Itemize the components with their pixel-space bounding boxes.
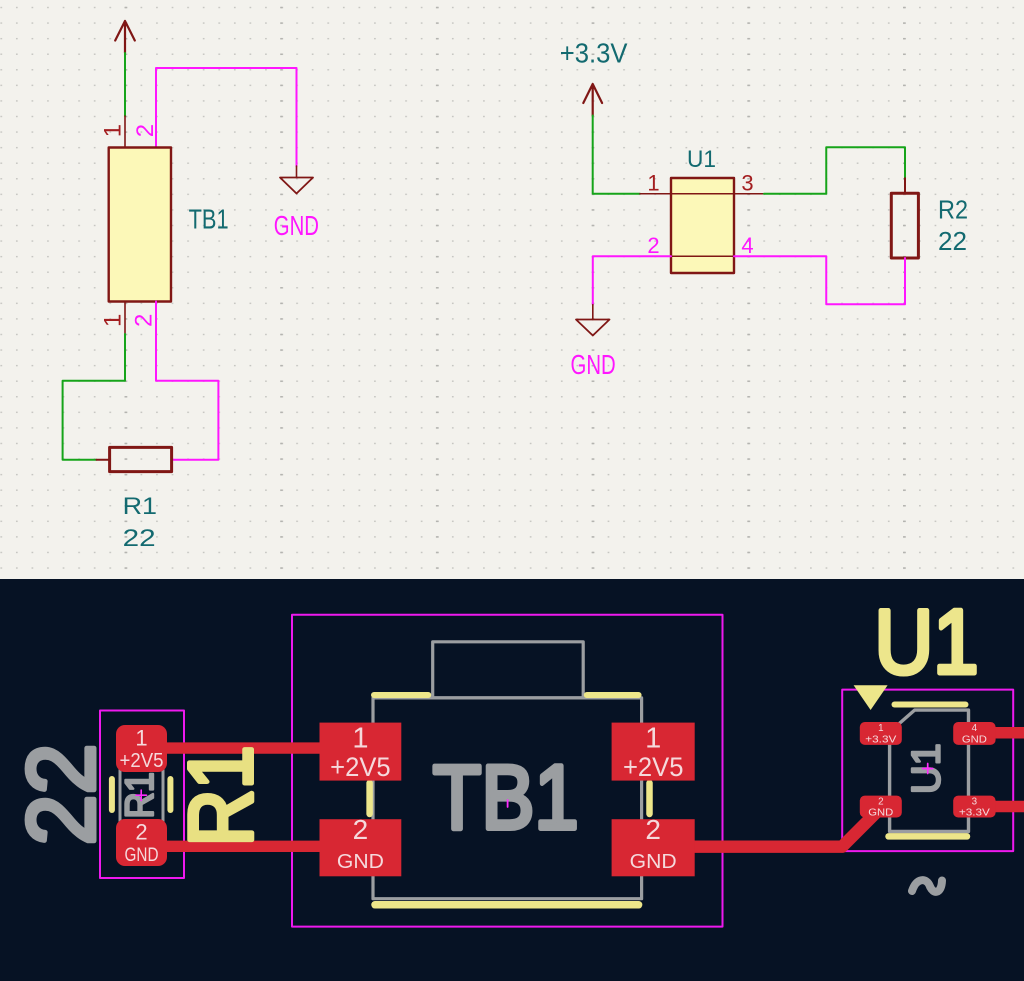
wire magenta U1 pin4 to R2 bottom: [734, 256, 905, 304]
svg-text:1: 1: [100, 124, 127, 137]
svg-text:2: 2: [135, 820, 147, 845]
anchor cross TB1: [507, 800, 509, 807]
courtyard U1 footprint: [842, 690, 1013, 852]
svg-text:U1: U1: [687, 146, 716, 173]
silkscreen TB1 right mid tick: [646, 783, 653, 814]
power symbol +3.3V arrow: [583, 84, 602, 116]
svg-text:4: 4: [972, 723, 978, 734]
svg-text:R1: R1: [171, 745, 271, 846]
board background: [0, 579, 1024, 981]
trace R1.2 to TB1.2: [160, 841, 335, 852]
svg-text:TB1: TB1: [189, 204, 229, 235]
U1 internal line pins 1-3: [671, 193, 734, 195]
svg-text:GND: GND: [337, 850, 384, 873]
silkscreen TB1 left mid tick: [366, 783, 373, 814]
svg-text:1: 1: [352, 723, 368, 755]
power symbol +2V5 (top-left) arrow: [115, 21, 135, 53]
silkscreen U1 pin1 triangle: [854, 685, 888, 710]
wire magenta TB1 pin2 to GND (incl pin 2 stub highlighted): [156, 68, 297, 166]
component TB1 body: [109, 148, 171, 302]
fab body U1: [890, 710, 969, 831]
svg-text:22: 22: [123, 525, 156, 552]
silkscreen R1 right tick: [167, 779, 173, 810]
anchor cross U1: [923, 764, 933, 774]
wire magenta TB1 pin2 to R1 pin2: [156, 302, 218, 460]
ground GND1 triangle: [280, 178, 313, 194]
silkscreen TB1 top-left segment: [374, 692, 428, 698]
anchor cross R1: [136, 790, 147, 801]
svg-text:2: 2: [353, 814, 369, 845]
pad U1.3: [953, 796, 995, 818]
svg-text:1: 1: [135, 726, 147, 751]
svg-text:+2V5: +2V5: [623, 752, 684, 782]
svg-text:+2V5: +2V5: [330, 752, 391, 782]
silkscreen U1 top bar: [895, 702, 966, 708]
silkscreen TB1 bottom bar: [375, 901, 639, 909]
svg-text:3: 3: [972, 797, 978, 808]
fab lines R1: [120, 770, 163, 821]
svg-text:2: 2: [645, 814, 661, 845]
wire green +3.3V to U1 pin 1: [593, 116, 640, 194]
svg-text:4: 4: [741, 233, 753, 258]
fab body TB1: [373, 698, 642, 899]
svg-text:+3.3V: +3.3V: [560, 38, 628, 69]
pad TB1 left 1: [320, 723, 402, 781]
U1 pin 3 stub: [734, 193, 764, 195]
ground GND2 triangle: [576, 320, 610, 336]
R1 pin 1 stub: [97, 459, 110, 461]
wire magenta U1 pin2 to GND2: [593, 256, 671, 304]
svg-text:2: 2: [878, 797, 883, 808]
svg-text:U1: U1: [875, 592, 979, 693]
svg-text:TB1: TB1: [433, 748, 579, 849]
silkscreen R1 left tick: [109, 779, 115, 810]
svg-text:GND: GND: [630, 850, 677, 873]
svg-text:GND: GND: [125, 844, 159, 866]
svg-text:GND: GND: [274, 210, 319, 241]
svg-text:GND: GND: [571, 349, 616, 380]
U1 internal line pins 2-4: [671, 255, 734, 257]
fab tilde U1: [912, 880, 942, 892]
pad U1.2: [860, 796, 902, 818]
R2 pin 1 stub: [904, 178, 906, 193]
wire green from power to TB1 pin 1: [124, 53, 126, 116]
TB1 pin 1 stub (top): [124, 116, 126, 148]
trace R1.1 to TB1.1: [160, 742, 335, 753]
pad R1.1: [116, 725, 167, 772]
pad TB1 right 1: [612, 723, 695, 781]
svg-text:1: 1: [100, 314, 127, 327]
svg-text:1: 1: [878, 723, 883, 734]
svg-text:2: 2: [132, 124, 159, 137]
svg-text:R1: R1: [123, 493, 157, 520]
wire green U1 pin3 to R2: [764, 147, 905, 193]
svg-text:22: 22: [938, 226, 967, 256]
resistor R2 body: [891, 193, 918, 258]
svg-text:2: 2: [131, 314, 158, 327]
svg-text:3: 3: [741, 171, 753, 196]
pad U1.4: [953, 722, 995, 745]
pad TB1 left 2: [320, 819, 402, 876]
trace U1 pad3 to right edge: [990, 801, 1024, 813]
svg-text:1: 1: [645, 723, 661, 755]
svg-text:22: 22: [8, 744, 115, 846]
svg-text:1: 1: [647, 171, 659, 196]
pad TB1 right 2: [612, 819, 695, 876]
svg-text:GND: GND: [868, 808, 893, 819]
courtyard R1 footprint: [100, 711, 184, 879]
pad U1.1: [860, 722, 902, 745]
silkscreen TB1 top-right segment: [587, 692, 639, 698]
TB1 pin 1 stub (bottom): [124, 302, 126, 335]
trace TB1 right pad2 to U1 pad2: [680, 807, 882, 847]
courtyard TB1 footprint: [292, 615, 723, 927]
ground GND2 pin stub: [592, 305, 594, 320]
pad R1.2: [116, 819, 167, 866]
trace U1 pad4 to right edge: [990, 727, 1024, 739]
op-amp U1 body: [671, 178, 734, 273]
fab tab TB1: [433, 642, 584, 698]
resistor R1 body: [110, 447, 172, 471]
svg-text:+2V5: +2V5: [120, 749, 164, 772]
schematic background: [0, 0, 1024, 579]
svg-text:+3.3V: +3.3V: [959, 808, 991, 819]
svg-text:R2: R2: [938, 195, 968, 225]
wire green TB1 pin1 to R1: [63, 334, 125, 460]
svg-text:GND: GND: [962, 735, 987, 746]
ground GND1 pin stub: [296, 166, 298, 178]
svg-text:+3.3V: +3.3V: [865, 735, 897, 746]
svg-text:2: 2: [647, 233, 659, 258]
U1 pin 1 stub: [640, 193, 671, 195]
silkscreen U1 bottom bar: [889, 833, 968, 840]
